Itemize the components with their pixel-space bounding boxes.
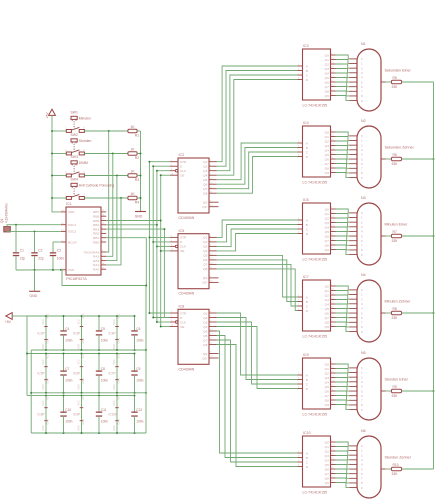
svg-text:Q7: Q7 — [203, 263, 207, 267]
wire IC1 RB4 to bus — [106, 224, 158, 226]
wire R2 to GND rail — [137, 153, 140, 155]
svg-text:R8: R8 — [393, 307, 397, 311]
resistor R2 1K — [128, 147, 139, 160]
svg-text:33K: 33K — [392, 85, 399, 89]
svg-text:QS': QS' — [202, 281, 207, 285]
svg-text:Q4: Q4 — [325, 71, 329, 75]
wire bus IC2 Q5-Q8 to IC4 — [217, 143, 298, 193]
svg-text:Q3: Q3 — [325, 298, 329, 302]
svg-text:Q2: Q2 — [203, 240, 207, 244]
svg-text:Q8: Q8 — [203, 343, 207, 347]
svg-text:Q3: Q3 — [325, 376, 329, 380]
capacitor C5 100n — [96, 315, 108, 351]
svg-text:Q4: Q4 — [325, 380, 329, 384]
svg-text:Q9: Q9 — [325, 94, 329, 98]
svg-text:100n: 100n — [57, 256, 64, 260]
svg-text:Q4: Q4 — [325, 148, 329, 152]
svg-text:+5V: +5V — [5, 320, 12, 324]
svg-text:VCC: VCC — [118, 394, 121, 399]
svg-text:VCC: VCC — [113, 359, 116, 364]
svg-text:+5V: +5V — [46, 112, 50, 119]
wire GND bus under crystal — [16, 269, 62, 271]
wire +5V vertical to IC1 VDD — [52, 115, 61, 211]
svg-text:Q6: Q6 — [203, 183, 207, 187]
svg-text:Q2: Q2 — [203, 165, 207, 169]
capacitor C8 100n — [96, 353, 108, 394]
svg-text:N4: N4 — [361, 273, 366, 277]
wire bus IC5 Q1-Q4 to IC6 — [217, 220, 298, 251]
svg-text:Q2: Q2 — [325, 293, 329, 297]
svg-text:Q5: Q5 — [203, 254, 207, 258]
svg-text:Q8: Q8 — [325, 243, 329, 247]
svg-text:C12: C12 — [136, 408, 142, 412]
svg-text:N2: N2 — [361, 119, 366, 123]
svg-text:Q7: Q7 — [325, 162, 329, 166]
svg-text:Q2: Q2 — [203, 316, 207, 320]
switch SW3 DIMM — [65, 155, 88, 177]
resistor R7 33K — [385, 222, 409, 242]
svg-text:C7: C7 — [65, 367, 69, 371]
svg-text:Q6: Q6 — [325, 389, 329, 393]
svg-text:LC-74141/K155: LC-74141/K155 — [303, 491, 328, 495]
svg-text:Q1: Q1 — [203, 236, 207, 240]
svg-text:N5: N5 — [361, 351, 366, 355]
svg-text:Q3: Q3 — [325, 454, 329, 458]
svg-text:Q2: Q2 — [325, 216, 329, 220]
svg-text:CLK: CLK — [180, 320, 187, 324]
wire +5V to SW1 — [51, 130, 66, 132]
svg-text:VCC: VCC — [78, 319, 81, 324]
wire +5V chain left — [26, 316, 28, 395]
svg-text:Q9: Q9 — [325, 171, 329, 175]
power pins IC5P — [38, 353, 50, 394]
svg-text:Q0: Q0 — [325, 207, 329, 211]
svg-text:GND: GND — [118, 378, 121, 384]
svg-text:GND: GND — [135, 214, 143, 218]
svg-text:IC8P: IC8P — [38, 413, 45, 417]
svg-text:Q8: Q8 — [325, 398, 329, 402]
svg-text:B: B — [306, 146, 308, 150]
svg-text:VCC: VCC — [82, 313, 85, 318]
svg-text:SW4: SW4 — [71, 177, 78, 181]
shift register IC5 CD4094N — [170, 229, 219, 296]
svg-text:SW2: SW2 — [71, 133, 78, 137]
wire GND bus row 2 — [31, 392, 146, 394]
wire SW4 output to IC1 pin — [106, 198, 121, 265]
svg-text:MCLR: MCLR — [68, 240, 78, 244]
resistor R3 1K — [128, 169, 139, 182]
svg-text:33K: 33K — [392, 472, 399, 476]
svg-text:Q6: Q6 — [325, 80, 329, 84]
svg-text:IC2: IC2 — [179, 153, 185, 157]
svg-text:Q5: Q5 — [325, 76, 329, 80]
svg-text:Q8: Q8 — [325, 476, 329, 480]
svg-text:STR: STR — [180, 160, 187, 164]
svg-text:Stunden Einer: Stunden Einer — [385, 377, 409, 381]
svg-text:Q5: Q5 — [325, 153, 329, 157]
svg-text:100n: 100n — [101, 338, 108, 342]
svg-text:100n: 100n — [65, 420, 72, 424]
resistor R6 33K — [385, 145, 415, 165]
wire R9 to HV rail — [402, 390, 435, 392]
wire SW1 output to IC1 pin — [106, 131, 109, 252]
nixie tube N1 — [349, 42, 385, 111]
svg-text:Q5: Q5 — [203, 329, 207, 333]
svg-text:Q4: Q4 — [325, 458, 329, 462]
wire bus vertical CLK — [156, 171, 158, 322]
svg-text:33K: 33K — [392, 394, 399, 398]
svg-text:VCC: VCC — [42, 400, 45, 405]
svg-text:Sekunden Einer: Sekunden Einer — [385, 68, 412, 72]
svg-text:Q3: Q3 — [203, 320, 207, 324]
svg-text:C11: C11 — [101, 408, 107, 412]
svg-text:C3: C3 — [57, 249, 61, 253]
svg-text:R10: R10 — [393, 463, 399, 467]
svg-text:1K: 1K — [131, 147, 136, 151]
supply +5V (switch block) — [46, 109, 56, 118]
svg-text:Q6: Q6 — [325, 157, 329, 161]
svg-text:Q7: Q7 — [325, 316, 329, 320]
svg-text:IC3P: IC3P — [73, 331, 80, 335]
svg-text:Q4: Q4 — [203, 249, 207, 253]
wire R5 to HV rail — [402, 81, 434, 83]
svg-text:100n: 100n — [65, 378, 72, 382]
driver IC10 LC-74141/K155 — [298, 431, 336, 495]
svg-text:GND: GND — [82, 338, 85, 344]
wire IC6 outputs to N3 cathodes — [336, 209, 350, 255]
svg-text:R5: R5 — [393, 76, 397, 80]
svg-text:OSC2: OSC2 — [68, 230, 77, 234]
wire GND chain right — [145, 349, 147, 433]
svg-text:Q9: Q9 — [325, 248, 329, 252]
svg-text:Q5: Q5 — [325, 463, 329, 467]
svg-text:Sekunden Zehner: Sekunden Zehner — [385, 145, 415, 149]
nixie tube N4 — [349, 273, 385, 342]
svg-text:C4: C4 — [65, 327, 69, 331]
svg-text:Q5: Q5 — [203, 178, 207, 182]
svg-text:Q1: Q1 — [203, 160, 207, 164]
svg-text:VCC: VCC — [42, 359, 45, 364]
svg-text:N3: N3 — [361, 196, 366, 200]
wire +5V bus row 1 — [27, 315, 135, 317]
svg-text:GND: GND — [42, 425, 45, 431]
svg-text:Q6: Q6 — [325, 234, 329, 238]
wire IC4 outputs to N2 cathodes — [336, 132, 350, 178]
svg-text:N6: N6 — [361, 429, 366, 433]
wire N5 anode to R9 — [386, 390, 392, 392]
svg-text:VCC: VCC — [118, 313, 121, 318]
wire HV supply rail — [433, 82, 435, 469]
capacitor C10 100n — [60, 394, 72, 434]
wire IC1 RB5 to bus — [106, 220, 161, 222]
wire bus vertical STR — [148, 162, 150, 313]
wire +5V to SW2 — [51, 153, 66, 155]
svg-text:LC-74141/K155: LC-74141/K155 — [303, 258, 328, 262]
capacitor C6 100n — [131, 315, 143, 351]
svg-text:Q4: Q4 — [203, 325, 207, 329]
wire SW4 to R4 — [84, 197, 128, 199]
svg-text:Q2: Q2 — [325, 449, 329, 453]
svg-text:VCC: VCC — [118, 353, 121, 358]
wire N3 anode to R7 — [386, 235, 392, 237]
resistor R1 1K — [128, 125, 139, 138]
svg-text:DIMM: DIMM — [79, 161, 88, 165]
svg-text:B: B — [306, 378, 308, 382]
microcontroller IC1 PIC16F627A — [61, 202, 106, 281]
svg-text:Q7: Q7 — [325, 394, 329, 398]
wire R6 to HV rail — [402, 158, 435, 160]
svg-text:N1: N1 — [361, 42, 366, 46]
svg-text:C9: C9 — [136, 367, 140, 371]
svg-text:IC7P: IC7P — [109, 372, 116, 376]
svg-text:Q5: Q5 — [325, 385, 329, 389]
wire GND chain left — [30, 350, 32, 433]
svg-text:GND: GND — [78, 344, 81, 350]
wire bus IC5 Q5-Q8 to IC7 — [217, 255, 298, 310]
supply +5V (decoupling grid) — [5, 313, 12, 324]
power pins IC10P — [109, 394, 121, 434]
wire +5V feed to grid — [12, 315, 27, 317]
svg-text:VCC: VCC — [42, 319, 45, 324]
svg-text:B: B — [306, 300, 308, 304]
svg-text:SW1: SW1 — [71, 110, 78, 114]
resistor R5 33K — [385, 68, 412, 88]
svg-text:Minuten Einer: Minuten Einer — [385, 222, 409, 226]
svg-text:Q0: Q0 — [325, 130, 329, 134]
resistor R4 1K — [128, 192, 139, 205]
svg-text:CLK: CLK — [180, 245, 187, 249]
svg-text:GND: GND — [113, 344, 116, 350]
capacitor C4 100n — [60, 315, 72, 351]
svg-text:IC6P: IC6P — [73, 372, 80, 376]
svg-text:R2: R2 — [135, 156, 139, 160]
wire bus vertical D — [152, 166, 154, 317]
svg-text:100n: 100n — [65, 338, 72, 342]
svg-text:1K: 1K — [131, 125, 136, 129]
nixie tube N6 — [349, 429, 385, 498]
svg-text:Q1: Q1 — [325, 289, 329, 293]
ground GND (switch pull rail) — [135, 212, 146, 219]
svg-text:Q1: Q1 — [325, 135, 329, 139]
svg-text:C8: C8 — [101, 367, 105, 371]
svg-text:GND: GND — [78, 425, 81, 431]
svg-text:IC8: IC8 — [179, 305, 185, 309]
svg-text:IC1: IC1 — [66, 202, 72, 206]
wire OSC1 net — [7, 224, 61, 227]
svg-text:R7: R7 — [393, 230, 397, 234]
svg-text:GND: GND — [78, 384, 81, 390]
resistor R10 33K — [385, 455, 412, 475]
svg-text:OE: OE — [180, 174, 184, 178]
svg-text:RA0: RA0 — [93, 268, 99, 272]
svg-text:VCC: VCC — [47, 394, 50, 399]
svg-text:CD4094N: CD4094N — [179, 292, 195, 296]
svg-text:IC4: IC4 — [303, 121, 309, 125]
shift register IC2 CD4094N — [170, 153, 219, 220]
svg-text:IC5: IC5 — [179, 229, 185, 233]
svg-text:1K: 1K — [131, 169, 136, 173]
driver IC7 LC-74141/K155 — [298, 275, 336, 339]
svg-text:QS': QS' — [202, 205, 207, 209]
svg-text:100n: 100n — [101, 420, 108, 424]
svg-text:Q7: Q7 — [203, 338, 207, 342]
svg-text:Q1: Q1 — [325, 212, 329, 216]
svg-text:IC7: IC7 — [303, 275, 309, 279]
driver IC6 LC-74141/K155 — [298, 198, 336, 262]
power pins IC3P — [73, 313, 85, 351]
svg-text:STR: STR — [180, 236, 187, 240]
svg-text:GND: GND — [42, 384, 45, 390]
svg-text:Q9: Q9 — [325, 403, 329, 407]
wire R8 to HV rail — [402, 312, 435, 314]
svg-text:LC-74141/K155: LC-74141/K155 — [303, 413, 328, 417]
nixie tube N2 — [349, 119, 385, 188]
svg-text:22p: 22p — [20, 256, 26, 260]
capacitor C11 100n — [96, 394, 108, 434]
wire R1 to GND rail — [137, 130, 140, 132]
svg-text:Q3: Q3 — [203, 169, 207, 173]
svg-text:GND: GND — [30, 294, 38, 298]
power pins IC7P — [109, 353, 121, 394]
svg-text:Q4: Q4 — [203, 174, 207, 178]
svg-text:CD4094N: CD4094N — [179, 216, 195, 220]
svg-text:OSC1: OSC1 — [68, 223, 77, 227]
wire bus taps to IC8 inputs — [148, 312, 170, 327]
svg-text:Q7: Q7 — [203, 187, 207, 191]
wire N4 anode to R8 — [386, 312, 392, 314]
svg-text:QS: QS — [203, 201, 207, 205]
svg-text:RB0: RB0 — [93, 240, 99, 244]
svg-text:Q0: Q0 — [325, 53, 329, 57]
svg-text:IC10P: IC10P — [109, 413, 118, 417]
svg-text:LC-74141/K155: LC-74141/K155 — [303, 181, 328, 185]
wire R4 to GND rail — [137, 197, 140, 199]
svg-text:GND: GND — [47, 419, 50, 425]
svg-text:Q1: Q1 — [325, 58, 329, 62]
svg-text:VCC: VCC — [82, 394, 85, 399]
svg-text:Minuten Zehner: Minuten Zehner — [385, 299, 412, 303]
svg-text:IC9: IC9 — [303, 353, 309, 357]
svg-text:GND: GND — [42, 344, 45, 350]
svg-text:PIC16F627A: PIC16F627A — [66, 277, 87, 281]
svg-text:IC6: IC6 — [303, 198, 309, 202]
wire R10 to HV rail — [402, 468, 434, 470]
driver IC4 LC-74141/K155 — [298, 121, 336, 185]
svg-text:Q3: Q3 — [325, 67, 329, 71]
wire bus vertical aux — [163, 229, 165, 317]
svg-text:Minuten: Minuten — [79, 116, 91, 120]
svg-text:R3: R3 — [135, 178, 139, 182]
wire N1 anode to R5 — [386, 81, 392, 83]
svg-text:Stunden: Stunden — [79, 139, 92, 143]
svg-text:LC-74141/K155: LC-74141/K155 — [303, 104, 328, 108]
svg-text:IC5P: IC5P — [38, 372, 45, 376]
svg-text:33K: 33K — [392, 239, 399, 243]
nixie tube N5 — [349, 351, 385, 420]
svg-text:C6: C6 — [136, 327, 140, 331]
wire bus IC8 Q1-Q4 to IC9 — [217, 313, 298, 389]
svg-text:GND: GND — [47, 338, 50, 344]
wire GND rail right of resistors — [140, 131, 142, 211]
svg-text:100n: 100n — [136, 338, 143, 342]
wire +5V to SW3 — [51, 175, 66, 177]
svg-text:Q7: Q7 — [325, 472, 329, 476]
wire SW2 output to IC1 pin — [106, 154, 113, 257]
svg-text:4.194304MHz: 4.194304MHz — [5, 203, 9, 223]
wire IC1 RB1 to decoupling GND rail — [106, 238, 147, 287]
svg-text:GND: GND — [82, 419, 85, 425]
svg-text:VDD: VDD — [68, 210, 75, 214]
svg-text:Q0: Q0 — [325, 362, 329, 366]
svg-text:Q2: Q2 — [325, 139, 329, 143]
svg-text:LC-74141/K155: LC-74141/K155 — [303, 335, 328, 339]
svg-text:IC3: IC3 — [303, 44, 309, 48]
wire +5V bus row 3 — [27, 394, 135, 396]
wire SW3 to R3 — [84, 175, 128, 177]
wire GND bus row 1 — [31, 349, 146, 351]
svg-text:B: B — [306, 69, 308, 73]
driver IC9 LC-74141/K155 — [298, 353, 336, 417]
svg-text:GND: GND — [113, 384, 116, 390]
wire N6 anode to R10 — [386, 468, 392, 470]
svg-text:1K: 1K — [131, 192, 136, 196]
wire N2 anode to R6 — [386, 158, 392, 160]
resistor R9 33K — [385, 377, 409, 397]
svg-text:Q6: Q6 — [203, 334, 207, 338]
power pins IC8P — [38, 394, 50, 434]
wire IC1 RB3 to bus — [106, 228, 165, 230]
wire IC9 outputs to N5 cathodes — [336, 364, 350, 410]
svg-text:33K: 33K — [392, 162, 399, 166]
svg-text:22p: 22p — [38, 256, 44, 260]
wire IC7 outputs to N4 cathodes — [336, 286, 350, 332]
wire +5V bus row 2 — [27, 353, 135, 355]
svg-text:Q2: Q2 — [325, 62, 329, 66]
svg-text:QS: QS — [203, 276, 207, 280]
svg-text:OE: OE — [180, 249, 184, 253]
svg-text:STR: STR — [180, 311, 187, 315]
svg-text:Stunden Zehner: Stunden Zehner — [385, 455, 412, 459]
driver IC3 LC-74141/K155 — [298, 44, 336, 108]
resistor R8 33K — [385, 299, 412, 319]
svg-text:C10: C10 — [65, 408, 71, 412]
wire GND bus row 3 — [31, 432, 146, 434]
wire R3 to GND rail — [137, 175, 140, 177]
svg-text:Q6: Q6 — [325, 467, 329, 471]
ground GND (oscillator) — [29, 270, 40, 298]
capacitor C1 22p — [13, 225, 26, 270]
wire SW1 to R1 — [84, 130, 128, 132]
capacitor C3 100n (MCLR) — [50, 242, 64, 270]
svg-text:VCC: VCC — [113, 400, 116, 405]
svg-text:Q8: Q8 — [325, 166, 329, 170]
power pins IC9P — [73, 394, 85, 434]
svg-text:100n: 100n — [136, 378, 143, 382]
svg-text:VCC: VCC — [47, 313, 50, 318]
svg-text:VCC: VCC — [78, 359, 81, 364]
shift register IC8 CD4094N — [170, 305, 219, 372]
svg-text:Q5: Q5 — [325, 230, 329, 234]
svg-text:QS: QS — [203, 352, 207, 356]
svg-text:33K: 33K — [392, 316, 399, 320]
svg-text:CLK: CLK — [180, 169, 187, 173]
power pins IC6P — [73, 353, 85, 394]
wire SW2 to R2 — [84, 153, 128, 155]
svg-text:Q6: Q6 — [203, 258, 207, 262]
svg-text:R9: R9 — [393, 385, 397, 389]
switch SW2 Stunden — [65, 133, 91, 155]
svg-text:SW3: SW3 — [71, 155, 78, 159]
